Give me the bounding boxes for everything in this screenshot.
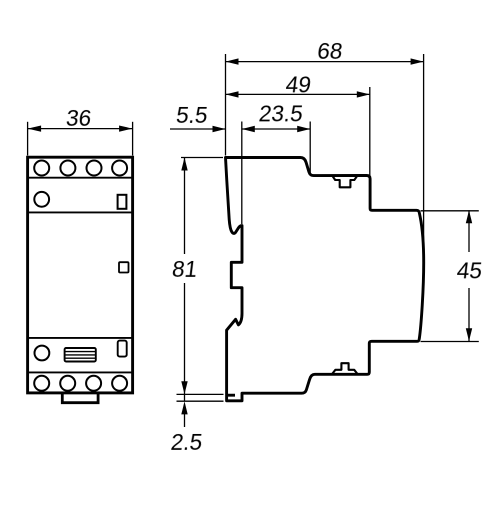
dimension 45: line (broken for text) — [468, 210, 470, 252]
lower band circle — [35, 346, 50, 361]
dimension 81: line (broken for text) — [184, 158, 186, 255]
svg-text:81: 81 — [171, 257, 199, 282]
svg-text:68: 68 — [316, 39, 344, 64]
bottom terminal circle 3 — [86, 376, 101, 391]
dimension 2.5: lower arrow and leader — [181, 401, 187, 414]
dimension 2.5: extension lines — [177, 393, 224, 395]
bottom terminal circle 2 — [60, 376, 75, 391]
lower band right rectangle — [118, 341, 127, 357]
dimension 2.5: connector through gap — [184, 394, 186, 401]
svg-text:2.5: 2.5 — [169, 430, 203, 455]
dimension 5.5: line — [170, 128, 226, 130]
svg-text:45: 45 — [455, 259, 483, 284]
top terminal circle 2 — [60, 161, 75, 176]
dimension 36: line — [28, 128, 133, 130]
svg-text:36: 36 — [65, 106, 93, 131]
side view profile outline — [226, 158, 424, 401]
dimension 49: extension line — [369, 87, 371, 176]
dimension 36: extension lines — [27, 122, 29, 156]
front view bottom tab — [62, 393, 98, 403]
dimension 45: arrows — [466, 210, 472, 223]
bottom terminal circle 1 — [34, 376, 49, 391]
dimension 23.5: extension lines — [241, 122, 243, 225]
front view body outline — [28, 157, 133, 393]
bottom terminal circle 4 — [112, 376, 127, 391]
svg-text:5.5: 5.5 — [175, 103, 209, 128]
lower band striped label — [65, 348, 96, 362]
top DIN clip tab — [332, 176, 357, 187]
dimension 23.5: line — [242, 128, 310, 130]
dimension 49: line — [226, 93, 370, 95]
second row circle — [34, 192, 49, 207]
svg-text:49: 49 — [284, 73, 312, 98]
dimension 68: line — [226, 61, 424, 63]
middle small square — [119, 262, 129, 272]
dimension 49: arrows — [226, 91, 239, 97]
dimension 45: extension lines — [421, 210, 479, 212]
front view second band line — [28, 211, 133, 213]
top terminal circle 1 — [34, 161, 49, 176]
dimension 68: arrows — [226, 58, 239, 64]
dimension 81: top extension line — [181, 157, 223, 159]
front view lower band line — [28, 337, 133, 339]
bottom DIN clip tab — [332, 363, 357, 374]
dimension 5.5: arrow — [213, 126, 226, 132]
svg-text:23.5: 23.5 — [257, 102, 304, 127]
dimension 68: extension lines — [225, 54, 227, 156]
second row right rectangle — [118, 195, 127, 209]
foot inner notch — [228, 394, 236, 397]
top terminal circle 4 — [112, 161, 127, 176]
dimension 81: arrows — [181, 158, 187, 171]
front view bottom band line — [28, 371, 133, 373]
top terminal circle 3 — [87, 161, 102, 176]
front view top band line — [28, 177, 133, 179]
dimension 36: arrows — [28, 126, 41, 132]
dimension 23.5: arrows — [242, 126, 255, 132]
